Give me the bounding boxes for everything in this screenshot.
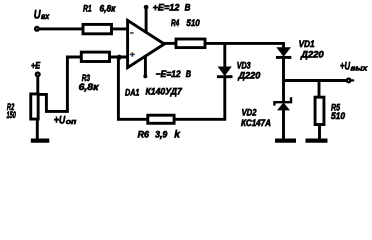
wire +E terminal to R2 top — [36, 76, 39, 93]
wire input Uvx to R1 — [37, 27, 82, 30]
resistor R1 — [83, 24, 112, 33]
pin dot -E supply — [143, 74, 147, 78]
label -E=12 V — [156, 69, 192, 80]
terminal +E — [36, 73, 40, 77]
label DA1 type — [125, 87, 182, 99]
wire op-amp -E supply pin — [144, 55, 147, 76]
wire R2 bottom to ground — [36, 120, 39, 140]
svg-text:510: 510 — [186, 18, 200, 29]
wire R6 right lead — [176, 118, 227, 121]
svg-text:R1: R1 — [83, 4, 92, 15]
label +E=12 V — [153, 3, 191, 14]
label Uvx — [34, 8, 50, 22]
zener VD2 — [277, 102, 290, 110]
svg-text:В: В — [185, 3, 191, 14]
svg-text:В: В — [186, 69, 191, 80]
pin dot +E supply — [144, 5, 149, 10]
wire R5 top branch — [318, 81, 321, 98]
wire R4 output to VD1 corner — [205, 43, 284, 48]
svg-text:+E: +E — [31, 60, 41, 71]
svg-text:510: 510 — [331, 111, 346, 122]
diode VD3 — [218, 67, 232, 77]
label R2 value — [7, 102, 17, 121]
wire VD3 bottom to R6 right — [223, 77, 226, 120]
label VD2 — [241, 108, 271, 129]
resistor R4 — [176, 39, 205, 48]
label R6 value — [138, 128, 181, 140]
diode VD3 cathode bar — [217, 75, 233, 78]
wire R3 left lead down and to R2 tap — [39, 57, 82, 111]
label +Uop node — [54, 114, 77, 126]
label R1 value — [83, 4, 116, 15]
wire feedback from node A down to R6 left lead — [118, 57, 147, 119]
wire output line to +Uout terminal — [284, 79, 347, 82]
wire R3 right lead to op-amp noninverting input — [109, 56, 128, 59]
svg-text:R6: R6 — [138, 129, 150, 140]
wire VD3 top branch — [223, 43, 226, 67]
wire VD1 to VD2 with output junction — [282, 57, 285, 101]
svg-text:VD1: VD1 — [299, 39, 315, 50]
diode VD1 — [276, 47, 291, 57]
diode VD1 cathode bar — [276, 56, 292, 59]
svg-text:КС147А: КС147А — [241, 118, 271, 129]
terminal Uvx — [35, 27, 39, 31]
wire op-amp output to R4 — [163, 42, 177, 45]
op-amp noninverting input marker — [130, 52, 135, 57]
svg-text:3,9: 3,9 — [155, 129, 168, 140]
svg-text:Д220: Д220 — [237, 71, 261, 82]
ground under VD2 — [275, 138, 296, 142]
ground under R2 — [31, 138, 50, 142]
svg-text:К140УД7: К140УД7 — [146, 87, 183, 98]
label VD3 — [237, 61, 261, 82]
op-amp DA1 triangle — [128, 20, 165, 67]
resistor R6 — [148, 115, 174, 123]
svg-text:DA1: DA1 — [125, 87, 139, 98]
label VD1 — [299, 39, 325, 61]
svg-text:+U: +U — [340, 60, 351, 72]
label R3 value — [79, 73, 100, 93]
wire op-amp +E supply pin — [145, 7, 148, 34]
label R4 value — [171, 18, 200, 29]
node A junction dot — [117, 55, 122, 60]
svg-text:вх: вх — [41, 12, 50, 21]
svg-text:Д220: Д220 — [300, 50, 324, 61]
resistor R3 — [81, 52, 109, 61]
zener VD2 cathode bar with flags — [274, 97, 291, 105]
label +Uout — [340, 60, 368, 72]
svg-text:+E=12: +E=12 — [153, 3, 180, 14]
resistor R5 — [315, 97, 324, 124]
svg-text:6,8к: 6,8к — [79, 82, 100, 93]
svg-text:−E=12: −E=12 — [156, 69, 182, 80]
label R5 value — [331, 102, 346, 122]
op-amp inverting input marker — [130, 32, 134, 34]
wire stub right of +Uout terminal — [351, 79, 354, 81]
svg-text:6,8к: 6,8к — [100, 4, 117, 15]
wire R5 bottom to ground — [318, 125, 321, 139]
svg-text:U: U — [34, 8, 41, 22]
svg-text:150: 150 — [7, 110, 17, 121]
wire VD2 bottom to ground — [282, 110, 285, 139]
svg-text:+U: +U — [54, 114, 66, 126]
resistor R2 — [31, 94, 38, 119]
wire R1 to op-amp inverting input — [112, 27, 129, 30]
ground under R5 — [306, 138, 328, 142]
svg-text:оп: оп — [66, 117, 77, 126]
svg-text:R4: R4 — [171, 18, 180, 29]
svg-text:вых: вых — [351, 64, 369, 73]
terminal +Uout — [347, 79, 351, 83]
